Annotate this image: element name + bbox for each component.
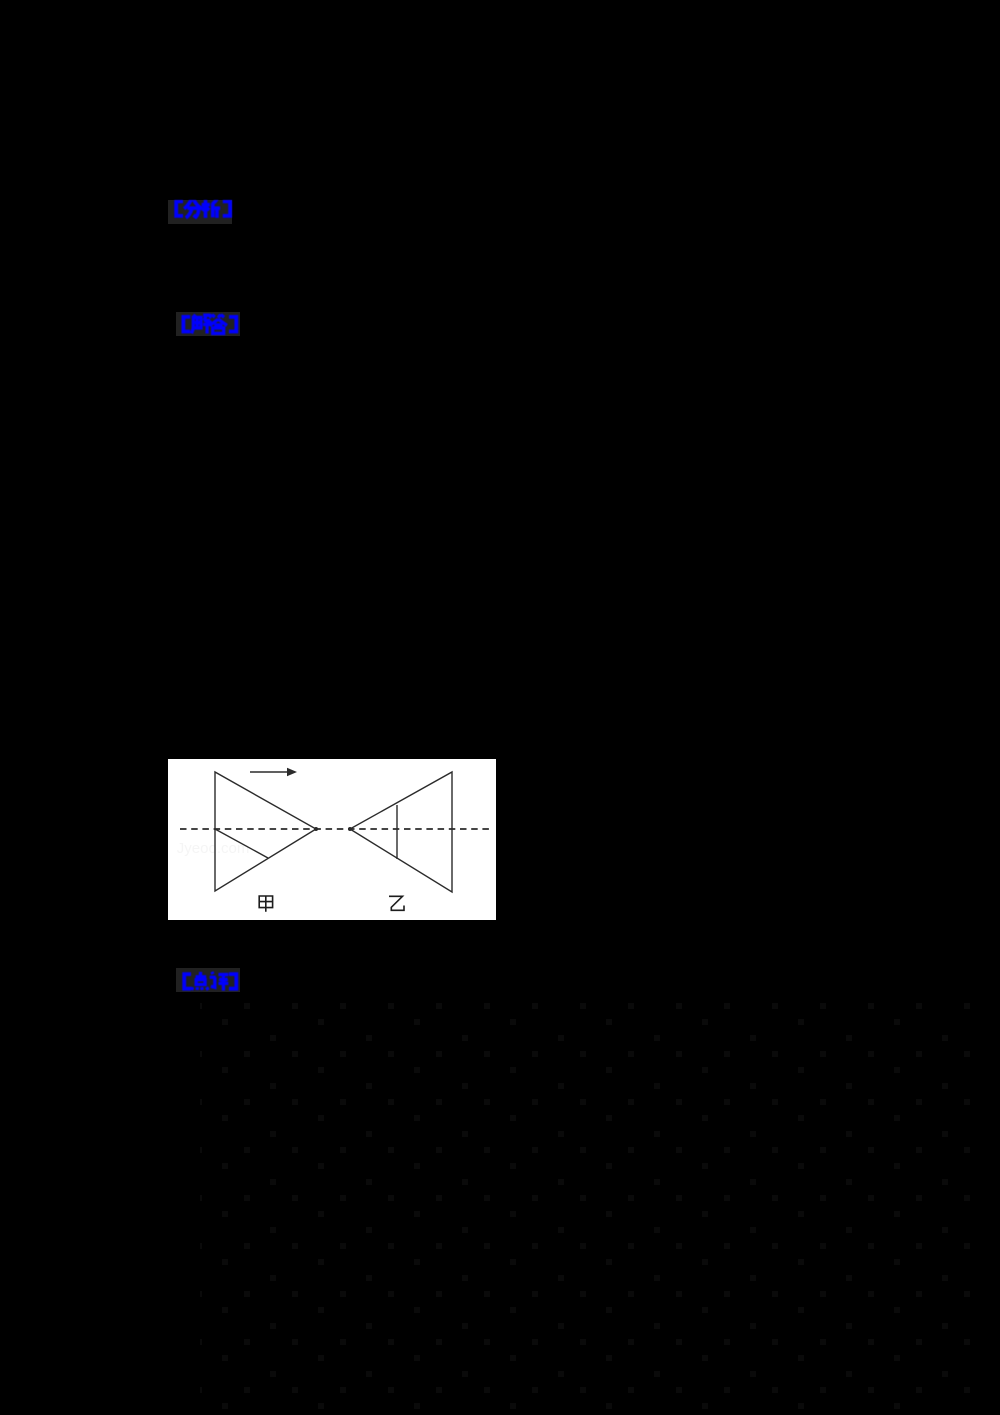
label jia: [259, 896, 272, 912]
label yi: [389, 896, 404, 910]
glyph 解: [192, 315, 211, 334]
dashed axis: [180, 828, 490, 830]
inner line yi: [396, 805, 398, 859]
tag 【点评】: [176, 968, 240, 992]
arrow: [250, 771, 288, 773]
bracket 】: [229, 317, 236, 332]
glyph 答: [209, 315, 227, 334]
glyph 评: [210, 972, 229, 991]
triangle yi: [350, 772, 452, 892]
tag 【分析】: [168, 200, 232, 224]
glyph 分: [184, 199, 202, 218]
bracket 】: [223, 201, 230, 216]
bracket 【: [184, 974, 191, 989]
tag 【解答】: [176, 312, 240, 336]
glyph 点: [192, 972, 209, 990]
triangle jia: [215, 772, 316, 891]
bracket 【: [176, 201, 183, 216]
inner line jia: [215, 829, 268, 858]
bracket 】: [229, 974, 236, 989]
figure box: [168, 759, 496, 920]
bracket 【: [183, 317, 190, 332]
arrow head: [287, 768, 297, 777]
glyph 析: [202, 199, 220, 218]
apex dots: [314, 827, 318, 831]
